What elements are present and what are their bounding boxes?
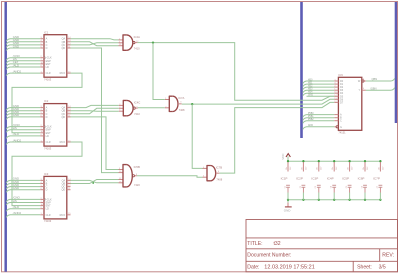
svg-text:LD: LD [46,135,49,138]
svg-text:IC4C: IC4C [134,100,140,104]
svg-text:HS2: HS2 [308,86,313,88]
svg-text:10n: 10n [286,167,288,170]
svg-text:IC3P: IC3P [311,176,318,180]
svg-text:QD: QD [61,47,65,50]
svg-text:C3: C3 [315,186,317,188]
svg-text:IC7A: IC7A [178,96,184,100]
svg-text:D: D [46,189,48,192]
svg-text:GND: GND [13,186,19,190]
svg-text:10n: 10n [378,167,380,170]
svg-text:GND: GND [13,44,19,48]
svg-text:Sheet:: Sheet: [357,265,372,271]
svg-text:LD: LD [46,208,49,211]
svg-text:/AND2: /AND2 [13,138,22,142]
svg-text:IC6: IC6 [338,73,343,77]
svg-text:IC3: IC3 [44,172,49,176]
svg-text:5: 5 [363,79,364,81]
svg-text:7420: 7420 [134,183,140,187]
svg-text:RCO: RCO [60,141,66,144]
svg-text:IC1P: IC1P [281,176,288,180]
svg-text:7408: 7408 [216,177,222,181]
svg-text:/AND2: /AND2 [13,69,22,73]
svg-text:C4: C4 [331,186,333,188]
svg-text:RCO: RCO [60,214,66,217]
svg-text:IC5P: IC5P [342,176,349,180]
svg-text:Date:: Date: [247,265,259,271]
svg-text:C7: C7 [377,186,379,188]
svg-text:13: 13 [334,98,336,100]
svg-text:HS1: HS1 [308,83,313,85]
svg-text:74151: 74151 [338,131,346,135]
svg-text:6: 6 [363,88,364,90]
svg-text:CLR: CLR [46,214,51,217]
svg-text:/ALD: /ALD [13,63,19,67]
svg-text:12: 12 [334,101,336,103]
svg-text:IC4A: IC4A [134,35,140,39]
svg-text:C2: C2 [300,186,302,188]
svg-text:QD: QD [61,189,65,192]
svg-text:GND: GND [308,95,313,97]
svg-text:HS0: HS0 [308,79,313,81]
svg-text:QD: QD [61,116,65,119]
svg-text:7410: 7410 [134,112,140,116]
svg-text:D: D [46,116,48,119]
svg-text:C: C [340,120,342,123]
svg-text:VCC: VCC [281,153,285,160]
svg-text:QBN: QBN [372,77,378,81]
svg-text:10n: 10n [301,167,303,170]
svg-text:GND: GND [284,208,292,212]
svg-text:IC2: IC2 [44,99,49,103]
svg-text:C6: C6 [361,186,363,188]
svg-text:IC5B: IC5B [134,165,140,169]
svg-text:12.03.2019 17:55:21: 12.03.2019 17:55:21 [264,265,314,271]
svg-text:GND: GND [308,125,313,127]
svg-text:74163: 74163 [44,146,52,150]
svg-text:HS: HS [13,126,17,130]
svg-text:3/5: 3/5 [379,265,386,271]
svg-text:74163: 74163 [44,219,52,223]
svg-text:10n: 10n [348,167,350,170]
svg-text:D: D [46,47,48,50]
svg-text:RCO: RCO [60,72,66,75]
svg-text:IC1: IC1 [44,30,49,34]
svg-text:14: 14 [334,95,336,97]
svg-text:IC7P: IC7P [373,176,380,180]
svg-text:10n: 10n [363,167,365,170]
svg-text:74163: 74163 [44,77,52,81]
svg-text:C1: C1 [284,186,286,188]
svg-text:HS4: HS4 [308,92,313,94]
svg-text:G: G [340,126,342,129]
svg-text:REV:: REV: [382,252,394,258]
svg-text:TITLE:: TITLE: [247,241,262,247]
svg-text:IC7B: IC7B [216,165,222,169]
svg-text:CLR: CLR [46,141,51,144]
svg-text:IC6P: IC6P [358,176,365,180]
svg-text:3: 3 [334,83,335,85]
svg-text:GND: GND [13,113,19,117]
svg-text:P5B2: P5B2 [308,119,314,121]
svg-text:t32: t32 [274,241,281,247]
svg-text:HS3: HS3 [308,89,313,91]
svg-text:IC2P: IC2P [296,176,303,180]
svg-text:/AND2: /AND2 [13,211,22,215]
svg-text:15: 15 [334,92,336,94]
svg-text:IC4P: IC4P [327,176,334,180]
svg-text:1: 1 [334,89,335,91]
svg-text:10n: 10n [317,167,319,170]
svg-text:P5B1: P5B1 [308,116,314,118]
svg-text:7410: 7410 [134,47,140,51]
svg-text:P5B0: P5B0 [308,113,314,115]
svg-text:C5: C5 [346,186,348,188]
svg-text:LD: LD [46,66,49,69]
svg-text:/QBN: /QBN [370,86,376,90]
svg-text:HS: HS [13,199,17,203]
svg-text:Document Number:: Document Number: [247,252,291,258]
svg-text:10n: 10n [332,167,334,170]
svg-text:CLR: CLR [46,72,51,75]
svg-text:7408: 7408 [179,108,185,112]
svg-text:2: 2 [334,86,335,88]
svg-text:4: 4 [334,80,335,82]
